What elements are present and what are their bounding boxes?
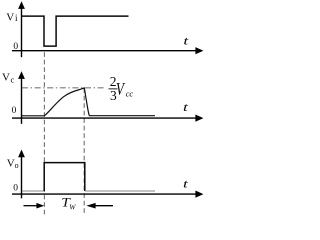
Vo time axis arrowhead (right) xyxy=(195,191,203,198)
Vo time axis (horizontal) xyxy=(12,193,197,195)
svg-text:cc: cc xyxy=(126,89,134,99)
node end-of-pulse guide: vertical dashed line at t2 (x=84.2) xyxy=(83,88,85,215)
dimension Tw left arrow (points right at t1) xyxy=(24,205,38,207)
label 2/3 Vcc : fraction bar xyxy=(109,88,118,89)
Vo axis arrowhead (up) xyxy=(18,150,25,158)
svg-text:0: 0 xyxy=(13,42,18,52)
Vc axis arrowhead (up) xyxy=(18,71,25,79)
Vc time axis (horizontal) xyxy=(12,117,197,119)
Vi time axis (horizontal) xyxy=(12,50,197,52)
dimension Tw right arrow (points left at t2) xyxy=(95,205,114,207)
svg-text:0: 0 xyxy=(12,106,17,116)
Vi axis (vertical) xyxy=(21,4,23,57)
svg-text:Vi: Vi xyxy=(6,11,18,23)
node 2/3 Vcc threshold: horizontal dash-dot line xyxy=(22,87,104,89)
waveform Vi: high, negative trigger pulse, high xyxy=(22,16,129,46)
wire Vo zero level after pulse (gray) xyxy=(85,190,155,192)
waveform Vc: zero, exponential charge to 2/3Vcc, rapid discharge, zero xyxy=(22,88,155,116)
Vo axis (vertical) xyxy=(21,152,23,198)
Vc axis (vertical) xyxy=(21,74,23,124)
Vi axis arrowhead (up) xyxy=(18,1,25,9)
wire Vo zero level before pulse (gray) xyxy=(22,190,44,192)
node trigger-time guide: vertical dashed line at t1 (x=44.4) xyxy=(43,52,45,214)
svg-text:0: 0 xyxy=(13,184,18,194)
Vc time axis arrowhead (right) xyxy=(195,115,203,122)
waveform Vo: output pulse xyxy=(44,163,85,191)
Vi time axis arrowhead (right) xyxy=(195,47,203,54)
svg-text:W: W xyxy=(69,203,76,212)
